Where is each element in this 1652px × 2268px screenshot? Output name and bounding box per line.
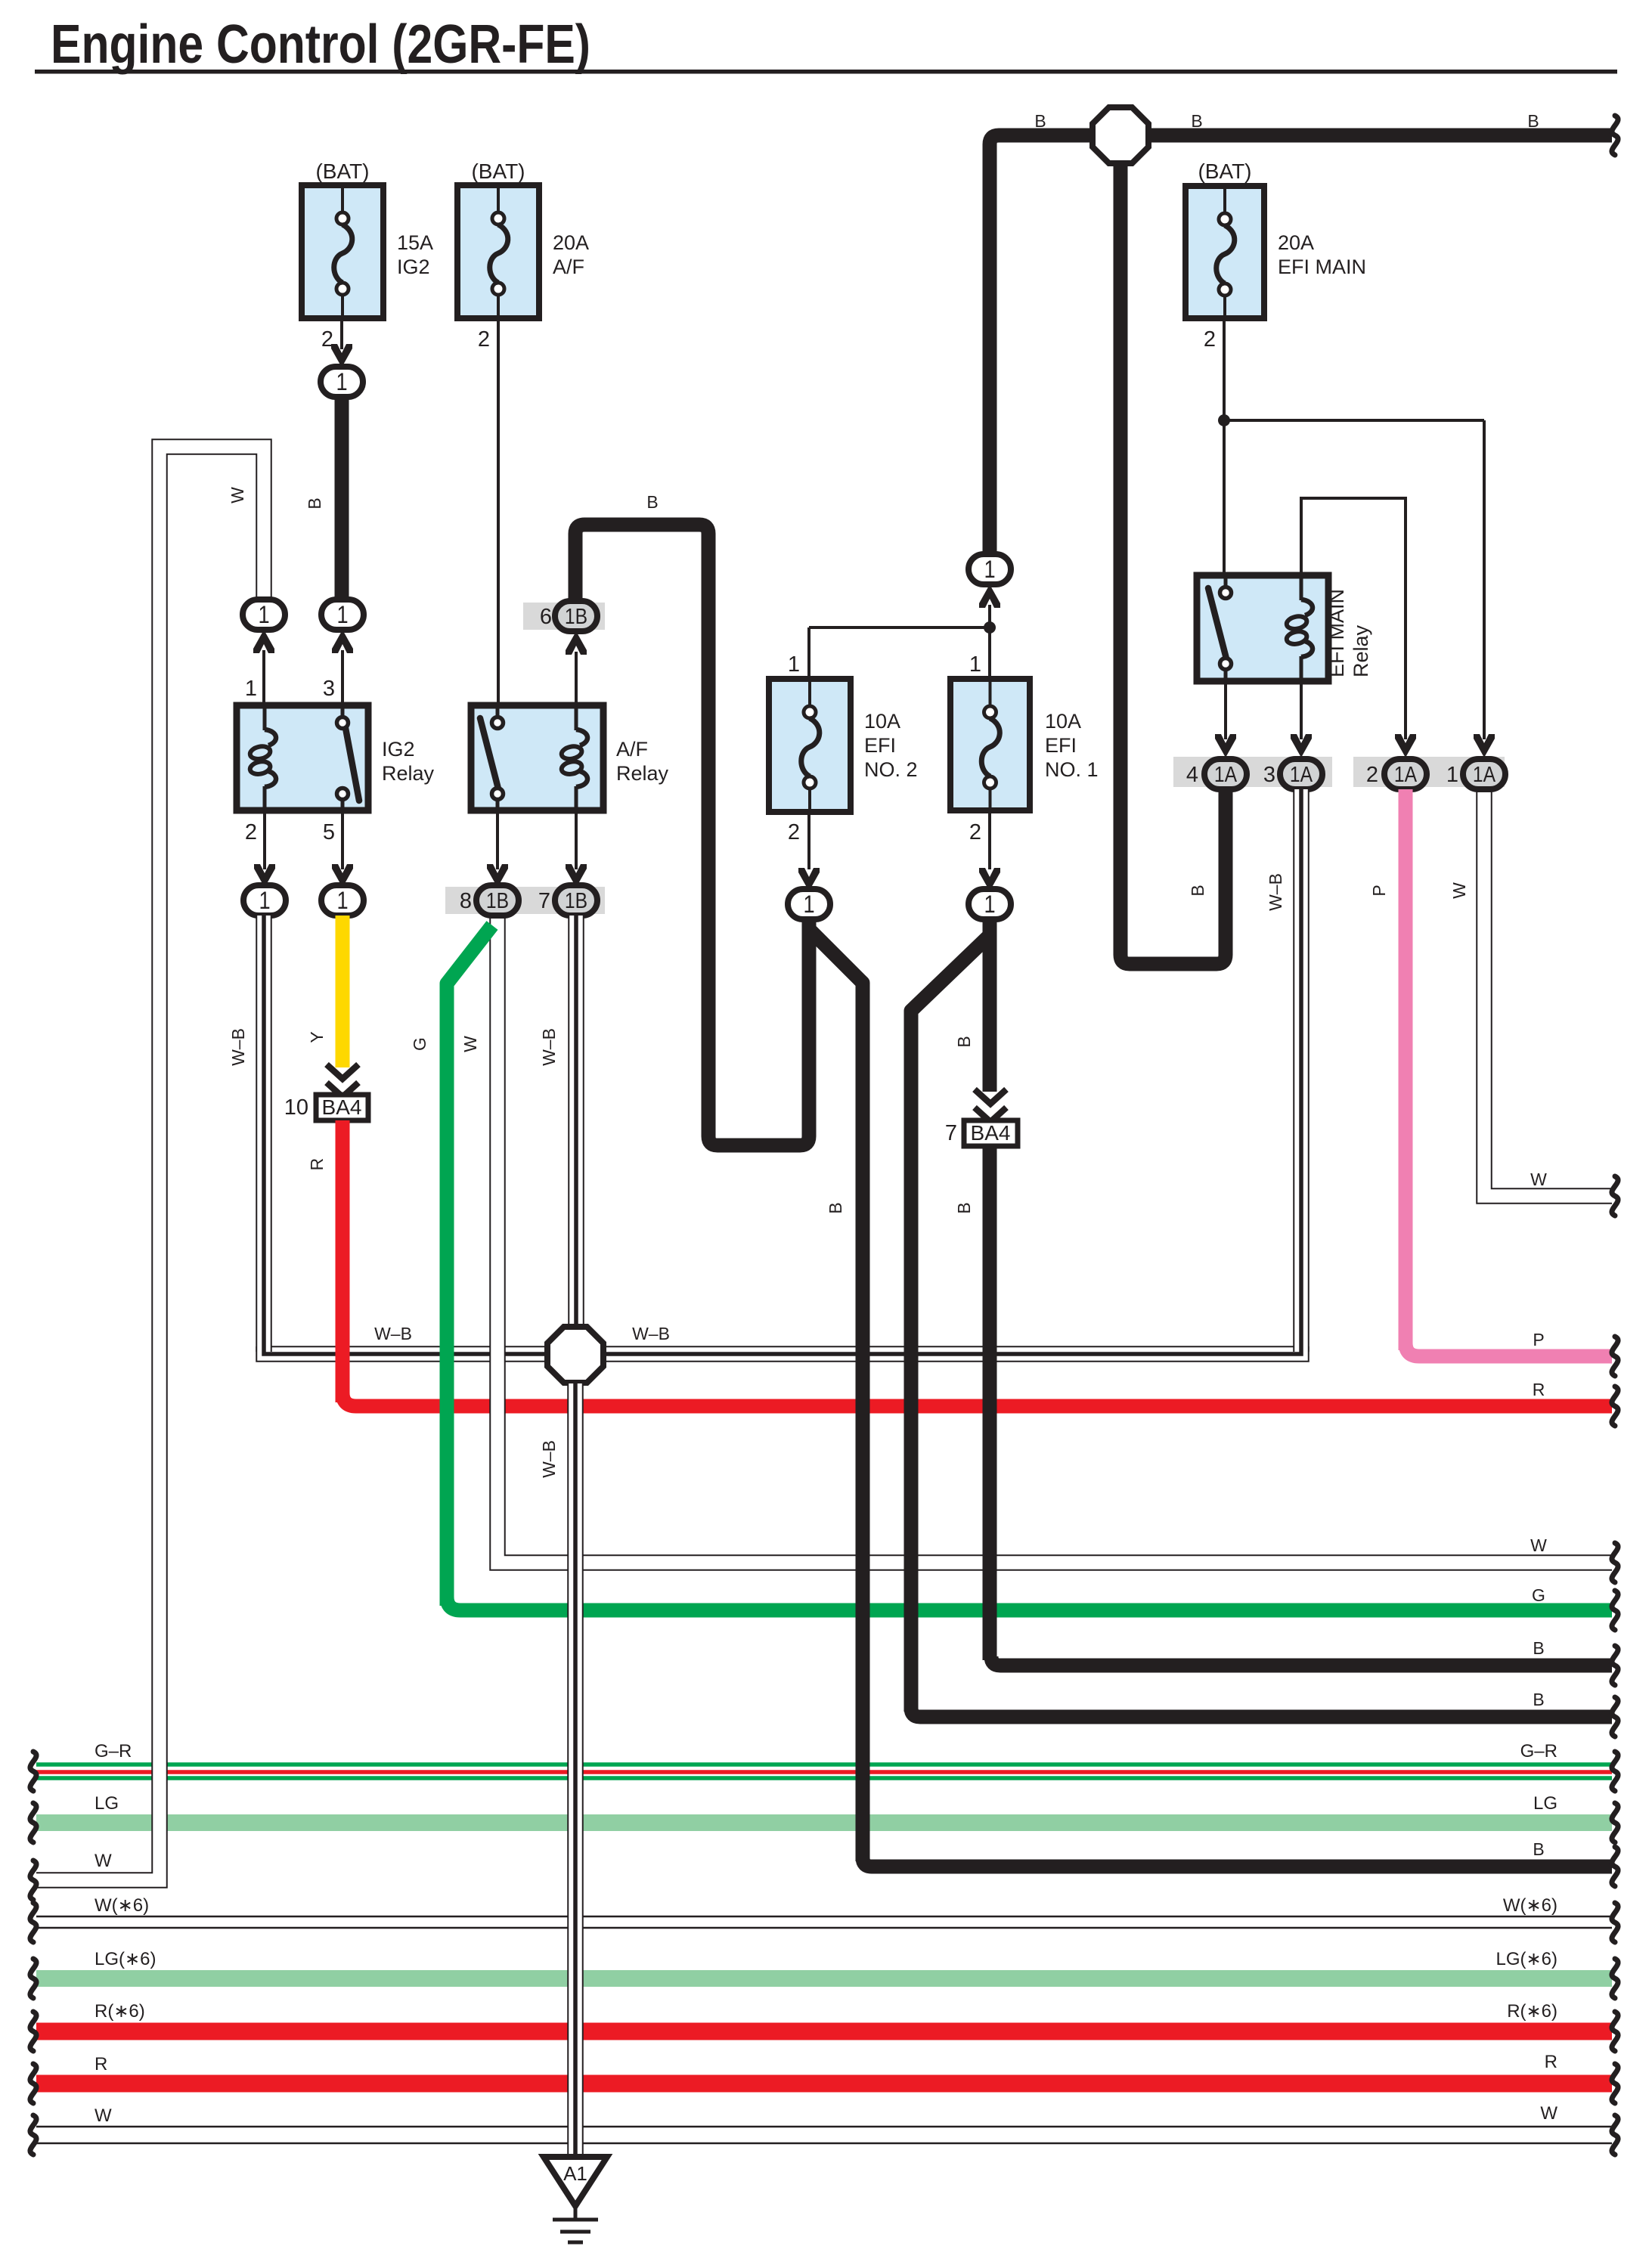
svg-text:20A: 20A xyxy=(553,231,589,254)
svg-text:Y: Y xyxy=(307,1031,327,1043)
wire B horizontal to right edge 3 xyxy=(863,1857,1612,1867)
wire P from 2 1A down xyxy=(1399,789,1413,1350)
wire from EFI MAIN coil to 3 1A xyxy=(1300,681,1303,739)
svg-text:G: G xyxy=(410,1037,429,1051)
svg-text:LG: LG xyxy=(1533,1793,1557,1814)
svg-text:2: 2 xyxy=(478,327,490,352)
svg-text:B: B xyxy=(1188,885,1207,896)
svg-text:1: 1 xyxy=(258,602,269,629)
switch of EFI MAIN relay xyxy=(1224,575,1228,587)
svg-text:10A: 10A xyxy=(864,710,900,733)
svg-text:3: 3 xyxy=(1263,763,1275,787)
wire B from BA4 pin 7 down xyxy=(983,1146,997,1660)
wire W-B horizontal left of junction xyxy=(264,1346,547,1354)
wire G horizontal xyxy=(447,1597,1612,1610)
svg-text:IG2: IG2 xyxy=(382,738,415,761)
arrow into connector 7 1B xyxy=(566,864,587,888)
wire from A/F relay pin 7 xyxy=(575,810,578,869)
wire B horizontal to right edge 2 xyxy=(911,1708,1612,1717)
break at left edge of LG6 wire xyxy=(30,1959,36,1998)
svg-text:1: 1 xyxy=(336,602,348,629)
connector 1 above EFI NO.1 fuse xyxy=(969,554,1011,584)
connector 1 below EFI NO.1 fuse xyxy=(969,889,1011,919)
svg-text:1: 1 xyxy=(336,888,348,915)
svg-text:A/F: A/F xyxy=(553,256,584,278)
junction octagon lower xyxy=(547,1327,603,1383)
break at right edge of B2 wire xyxy=(1612,1697,1618,1737)
break at right edge of LG wire xyxy=(1612,1803,1618,1842)
wire B vertical from junction down and loop up to 4 1A xyxy=(1120,164,1226,964)
svg-text:Relay: Relay xyxy=(1350,624,1372,677)
wire W-B from IG2 relay pin 2 connector down xyxy=(256,916,272,1352)
wire LG bus xyxy=(36,1814,1612,1831)
switch of IG2 relay xyxy=(341,705,345,717)
svg-text:2: 2 xyxy=(1366,763,1378,787)
wire across to EFI NO.2 fuse pin 1 xyxy=(809,626,990,629)
wire to IG2 relay pin 1 xyxy=(262,650,265,705)
svg-text:R: R xyxy=(307,1158,327,1171)
break at right edge of Wb wire xyxy=(1612,2115,1618,2155)
coil of EFI MAIN relay xyxy=(1300,575,1303,600)
svg-text:7: 7 xyxy=(538,889,550,913)
arrow into 2 1A xyxy=(1395,734,1416,758)
svg-text:P: P xyxy=(1533,1330,1544,1349)
break at right edge of G-R wire xyxy=(1612,1752,1618,1791)
svg-text:1B: 1B xyxy=(565,604,587,628)
svg-text:LG(∗6): LG(∗6) xyxy=(95,1949,156,1969)
connector 1 above IG2 relay pin 1 xyxy=(243,600,285,630)
svg-text:10: 10 xyxy=(284,1095,308,1120)
wire W-B from 3 1A down xyxy=(1293,789,1310,1352)
svg-text:B: B xyxy=(1533,1839,1544,1859)
svg-text:W–B: W–B xyxy=(632,1324,670,1343)
svg-text:B: B xyxy=(954,1202,974,1213)
svg-text:(BAT): (BAT) xyxy=(471,160,525,183)
wire to IG2 relay pin 3 xyxy=(341,650,344,705)
break at left edge of W6 wire xyxy=(30,1903,36,1942)
svg-text:G–R: G–R xyxy=(1520,1741,1557,1761)
fuse 20A A/F xyxy=(457,185,539,318)
svg-text:1: 1 xyxy=(336,369,347,396)
wire G from 8 1B diagonal and down xyxy=(447,925,492,1606)
svg-text:W: W xyxy=(1449,882,1469,899)
arrow into connector below pin 5 xyxy=(332,864,353,888)
wire W from 8 1B down and right to edge xyxy=(497,916,1612,1563)
svg-text:W: W xyxy=(1530,1170,1547,1189)
svg-text:1: 1 xyxy=(1446,763,1458,787)
svg-text:W–B: W–B xyxy=(1266,873,1285,911)
svg-text:W–B: W–B xyxy=(228,1028,248,1066)
wire from EFI NO.2 fuse pin 2 xyxy=(807,810,811,869)
arrow into 1 1A xyxy=(1474,734,1495,758)
svg-text:B: B xyxy=(1034,111,1046,131)
break at left edge of W wire xyxy=(30,2115,36,2155)
svg-text:Relay: Relay xyxy=(382,762,435,785)
svg-text:4: 4 xyxy=(1186,763,1198,787)
wire R(*6) bus xyxy=(36,2023,1612,2040)
connector 1B pin 8 xyxy=(476,885,519,916)
arrow into connector 8 1B xyxy=(487,864,508,888)
svg-text:A/F: A/F xyxy=(616,738,648,761)
svg-text:IG2: IG2 xyxy=(397,256,430,278)
arrow into connector below EFI NO.2 xyxy=(798,868,820,891)
connector 1 below IG2 relay pin 2 xyxy=(243,885,286,916)
svg-text:20A: 20A xyxy=(1278,231,1314,254)
break at right edge of P wire xyxy=(1612,1337,1618,1376)
wire B from EFI NO.2 branch diagonal down xyxy=(811,931,863,1861)
arrow into connector below pin 2 xyxy=(254,864,275,888)
wire W from 1 1A down and right to edge xyxy=(1484,789,1612,1196)
connector 1A pin 1 xyxy=(1463,759,1505,789)
svg-text:W: W xyxy=(228,487,247,503)
relay box A/F xyxy=(471,705,603,810)
svg-text:EFI: EFI xyxy=(1045,734,1077,757)
wire from EFI MAIN fuse pin 2 xyxy=(1223,318,1226,575)
connector 1 below IG2 relay pin 5 xyxy=(321,885,364,916)
svg-text:EFI: EFI xyxy=(864,734,896,757)
wire R horizontal xyxy=(342,1393,1612,1406)
svg-text:R: R xyxy=(95,2054,107,2074)
svg-text:1A: 1A xyxy=(1214,762,1237,786)
wire B top horizontal left with corner down xyxy=(990,135,1093,554)
wire from A/F fuse to A/F relay xyxy=(497,318,500,705)
break at right edge of B1 wire xyxy=(1612,1646,1618,1685)
wire from A/F relay pin 8 xyxy=(496,810,499,869)
svg-text:1B: 1B xyxy=(486,888,509,912)
svg-text:BA4: BA4 xyxy=(322,1095,362,1119)
coil of A/F relay xyxy=(575,705,578,730)
wire W-B from 7 1B down to junction xyxy=(568,916,584,1328)
svg-text:8: 8 xyxy=(460,889,472,913)
connector 1 below EFI NO.2 fuse xyxy=(788,889,830,919)
svg-text:NO. 1: NO. 1 xyxy=(1045,758,1099,781)
svg-text:B: B xyxy=(826,1202,845,1213)
arrow into connector below EFI NO.1 xyxy=(979,868,1000,891)
break at right edge of R wire xyxy=(1612,1387,1618,1426)
svg-text:1B: 1B xyxy=(565,888,587,912)
svg-text:W: W xyxy=(1540,2103,1557,2124)
arrow into connector above relay pin 1 xyxy=(253,630,274,653)
svg-text:15A: 15A xyxy=(397,231,433,254)
svg-text:Engine Control (2GR-FE): Engine Control (2GR-FE) xyxy=(51,14,590,75)
break at left edge of G-R wire xyxy=(30,1752,36,1791)
arrow into 3 1A xyxy=(1291,734,1312,758)
wire LG(*6) bus xyxy=(36,1970,1612,1987)
arrow into 4 1A xyxy=(1215,734,1236,758)
connector 1B pin 6 xyxy=(555,601,597,631)
svg-text:B: B xyxy=(954,1036,974,1047)
svg-text:B: B xyxy=(646,492,658,512)
connector BA4 pin 10 xyxy=(316,1095,368,1120)
wire from IG2 fuse pin 2 xyxy=(340,318,343,349)
wire B from 6 1B up over to EFI fuse branch xyxy=(575,525,809,1145)
svg-text:B: B xyxy=(1191,111,1202,131)
wire B horizontal to right edge 1 xyxy=(991,1656,1612,1665)
svg-text:B: B xyxy=(1527,111,1539,131)
wire from EFI MAIN coil over to 2 1A xyxy=(1301,498,1406,739)
wire W(*6) bus xyxy=(36,1916,1612,1918)
svg-text:W: W xyxy=(1530,1535,1547,1555)
svg-text:R: R xyxy=(1545,2052,1557,2072)
ground hatching xyxy=(574,2206,578,2220)
svg-text:2: 2 xyxy=(245,820,257,844)
svg-text:BA4: BA4 xyxy=(971,1121,1011,1145)
wire from IG2 relay pin 5 xyxy=(341,810,344,869)
svg-text:1: 1 xyxy=(969,652,981,677)
svg-text:W: W xyxy=(95,2105,112,2126)
svg-text:LG(∗6): LG(∗6) xyxy=(1496,1949,1557,1969)
wire branch to connector 1 1A xyxy=(1224,419,1484,422)
wire B from EFI NO.1 branch diagonal down xyxy=(911,937,988,1712)
double chevron arrow into BA4 pin 10 xyxy=(327,1064,358,1079)
svg-text:1: 1 xyxy=(245,677,257,701)
svg-text:A1: A1 xyxy=(563,2162,587,2185)
junction dot below EFI MAIN fuse xyxy=(1218,414,1230,426)
break at right edge of G wire xyxy=(1612,1591,1618,1630)
title underline rule xyxy=(35,70,1617,74)
arrow into connector below IG2 fuse xyxy=(331,344,352,367)
break at right edge of W wire xyxy=(1612,1543,1618,1582)
junction octagon top xyxy=(1093,107,1148,163)
break at right edge of B3 wire xyxy=(1612,1847,1618,1886)
fuse 15A IG2 xyxy=(302,185,383,318)
svg-text:1: 1 xyxy=(803,891,814,919)
svg-text:5: 5 xyxy=(323,820,335,844)
svg-text:W–B: W–B xyxy=(539,1440,559,1478)
svg-text:B: B xyxy=(1533,1638,1544,1658)
arrow into connector above relay pin 3 xyxy=(332,630,353,653)
wire W-B horizontal right of junction xyxy=(604,1346,1301,1354)
wire B top horizontal right xyxy=(1146,129,1612,143)
svg-text:2: 2 xyxy=(788,820,800,844)
wire W loop from left edge to IG2 relay pin 1 xyxy=(36,447,264,1880)
svg-text:B: B xyxy=(1533,1690,1544,1709)
svg-text:1: 1 xyxy=(259,888,270,915)
fuse 10A EFI NO.2 xyxy=(769,679,851,812)
grey band for 6 1B connector xyxy=(523,603,605,630)
ground symbol A1 xyxy=(544,2157,607,2206)
connector 1 below IG2 fuse xyxy=(321,367,363,397)
grey band for 4 and 3 1A connectors xyxy=(1173,757,1332,787)
relay box IG2 xyxy=(237,705,368,810)
wire W bus xyxy=(36,2126,1612,2128)
double chevron arrow into BA4 pin 7 xyxy=(975,1089,1006,1104)
svg-text:W: W xyxy=(95,1851,112,1871)
svg-text:B: B xyxy=(305,497,324,509)
svg-text:R(∗6): R(∗6) xyxy=(1507,2001,1557,2022)
fuse 20A EFI MAIN xyxy=(1186,186,1264,318)
svg-text:1A: 1A xyxy=(1394,762,1417,786)
svg-text:W(∗6): W(∗6) xyxy=(95,1895,149,1916)
break at left edge of R6 wire xyxy=(30,2012,36,2051)
wire P horizontal xyxy=(1406,1343,1612,1356)
wire G-R bus (left to right) xyxy=(36,1762,1612,1767)
svg-text:7: 7 xyxy=(945,1121,957,1145)
break at left edge of LG wire xyxy=(30,1803,36,1842)
connector BA4 pin 7 xyxy=(964,1120,1018,1146)
wire B from EFI NO.1 connector to BA4 pin 7 xyxy=(983,919,997,1092)
svg-text:1A: 1A xyxy=(1290,762,1313,786)
svg-text:R(∗6): R(∗6) xyxy=(95,2001,145,2022)
connector 1A pin 2 xyxy=(1384,759,1427,789)
connector 1A pin 4 xyxy=(1204,759,1247,789)
svg-text:2: 2 xyxy=(969,820,981,844)
arrow into connector above EFI NO.1 xyxy=(979,584,1000,608)
break at right edge of B wire xyxy=(1612,116,1618,155)
grey band for 2 and 1 1A connectors xyxy=(1353,757,1505,787)
grey band for 8 and 7 1B connectors xyxy=(445,887,605,914)
connector 1 above IG2 relay pin 3 xyxy=(321,600,364,630)
switch of A/F relay xyxy=(496,705,500,717)
svg-text:W–B: W–B xyxy=(539,1028,559,1066)
svg-text:W(∗6): W(∗6) xyxy=(1503,1895,1557,1916)
svg-text:NO. 2: NO. 2 xyxy=(864,758,918,781)
svg-text:(BAT): (BAT) xyxy=(315,160,369,183)
wire B from IG2 fuse connector xyxy=(335,397,349,600)
wire Y from IG2 relay pin 5 connector xyxy=(336,916,350,1067)
svg-text:10A: 10A xyxy=(1045,710,1081,733)
connector 1B pin 7 xyxy=(555,885,597,916)
wire from IG2 relay pin 2 xyxy=(263,810,266,869)
svg-text:1A: 1A xyxy=(1473,762,1495,786)
wire R bus xyxy=(36,2075,1612,2093)
break at right edge of R6 wire xyxy=(1612,2012,1618,2051)
svg-text:(BAT): (BAT) xyxy=(1198,160,1251,183)
break at right edge of W6 wire xyxy=(1612,1903,1618,1942)
svg-text:EFI MAIN: EFI MAIN xyxy=(1278,256,1366,278)
svg-text:1: 1 xyxy=(984,891,995,919)
break at right edge of W wire xyxy=(1612,1176,1618,1216)
svg-text:2: 2 xyxy=(1204,327,1216,352)
svg-text:G–R: G–R xyxy=(95,1741,132,1761)
svg-text:LG: LG xyxy=(95,1793,119,1814)
connector 1A pin 3 xyxy=(1280,759,1322,789)
fuse 10A EFI NO.1 xyxy=(950,679,1030,810)
svg-text:Relay: Relay xyxy=(616,762,669,785)
svg-text:W: W xyxy=(460,1036,480,1052)
svg-text:G: G xyxy=(1532,1585,1545,1605)
break at right edge of Rb wire xyxy=(1612,2064,1618,2103)
svg-text:1: 1 xyxy=(788,652,800,677)
wire from arrow to junction dot xyxy=(988,605,991,679)
junction dot above EFI NO.1 fuse xyxy=(984,621,996,634)
break at left edge of R wire xyxy=(30,2064,36,2103)
svg-text:W–B: W–B xyxy=(374,1324,412,1343)
wire W-B from junction down to ground xyxy=(567,1383,584,2157)
svg-text:3: 3 xyxy=(323,677,335,701)
break at right edge of LG6 wire xyxy=(1612,1959,1618,1998)
wire R from BA4 pin 10 down xyxy=(336,1120,350,1402)
svg-text:1: 1 xyxy=(984,556,995,584)
wire from arrow to A/F relay coil xyxy=(575,652,578,705)
break at left edge of W wire xyxy=(30,1861,36,1900)
wire from EFI NO.1 fuse pin 2 xyxy=(988,810,991,869)
coil of IG2 relay xyxy=(263,705,267,730)
svg-text:P: P xyxy=(1369,885,1389,896)
wire from EFI MAIN switch to 4 1A xyxy=(1224,681,1227,739)
relay box EFI MAIN xyxy=(1197,575,1328,681)
svg-text:R: R xyxy=(1533,1380,1545,1399)
svg-text:EFI MAIN: EFI MAIN xyxy=(1325,589,1348,677)
arrow into 6 1B connector xyxy=(566,631,587,655)
svg-text:6: 6 xyxy=(540,605,552,629)
